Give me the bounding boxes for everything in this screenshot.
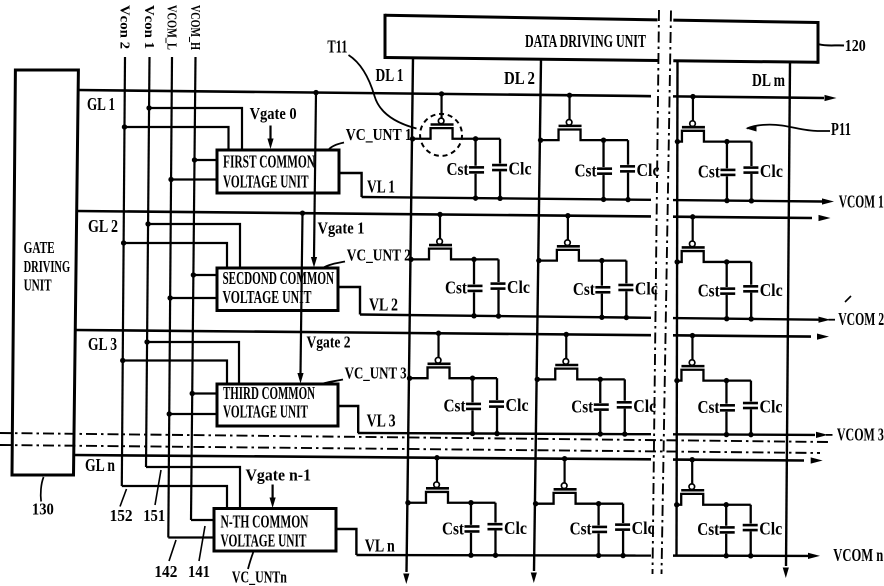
svg-text:GL 1: GL 1 [87, 94, 115, 114]
svg-text:VCOM_H: VCOM_H [187, 5, 202, 50]
svg-text:Cst: Cst [570, 519, 592, 539]
svg-text:142: 142 [154, 562, 177, 581]
svg-text:VOLTAGE UNIT: VOLTAGE UNIT [223, 402, 308, 422]
svg-text:VL 2: VL 2 [369, 295, 398, 315]
svg-text:Cst: Cst [697, 519, 719, 539]
svg-text:Clc: Clc [759, 397, 782, 417]
svg-text:Clc: Clc [637, 160, 660, 180]
svg-text:VL n: VL n [365, 536, 395, 556]
svg-text:Vgate 0: Vgate 0 [250, 104, 297, 123]
svg-text:Vgate 1: Vgate 1 [318, 219, 365, 238]
svg-text:VOLTAGE UNIT: VOLTAGE UNIT [221, 531, 307, 551]
svg-text:DL 2: DL 2 [504, 68, 535, 88]
svg-text:Cst: Cst [444, 396, 466, 416]
svg-text:Clc: Clc [504, 518, 527, 538]
svg-text:THIRD COMMON: THIRD COMMON [223, 383, 315, 403]
svg-text:VL 3: VL 3 [367, 411, 396, 431]
svg-text:Clc: Clc [635, 279, 658, 299]
svg-text:DRIVING: DRIVING [24, 257, 71, 276]
svg-text:VCOM_L: VCOM_L [163, 5, 178, 50]
svg-text:Cst: Cst [573, 279, 595, 299]
svg-text:Cst: Cst [447, 159, 469, 179]
svg-text:Cst: Cst [697, 397, 719, 417]
svg-text:Vgate n-1: Vgate n-1 [246, 466, 312, 485]
svg-text:141: 141 [188, 562, 210, 581]
svg-text:130: 130 [32, 500, 54, 519]
svg-text:Cst: Cst [442, 518, 464, 538]
svg-text:VCOM n: VCOM n [833, 545, 883, 565]
svg-text:DL 1: DL 1 [376, 65, 404, 85]
svg-text:Clc: Clc [633, 396, 656, 416]
svg-text:Clc: Clc [759, 519, 782, 539]
svg-text:VC_UNTn: VC_UNTn [232, 568, 287, 586]
svg-text:GATE: GATE [24, 238, 55, 257]
svg-text:VCOM 1: VCOM 1 [839, 192, 884, 212]
svg-text:P11: P11 [831, 119, 851, 139]
svg-text:GL 3: GL 3 [88, 334, 117, 354]
svg-text:UNIT: UNIT [24, 275, 52, 294]
svg-text:Clc: Clc [760, 161, 783, 181]
svg-text:Cst: Cst [575, 160, 597, 180]
svg-text:VOLTAGE UNIT: VOLTAGE UNIT [223, 287, 312, 307]
svg-text:DL m: DL m [752, 70, 785, 90]
svg-text:151: 151 [143, 506, 165, 525]
svg-text:VC_UNT 3: VC_UNT 3 [345, 364, 407, 383]
svg-text:Cst: Cst [698, 162, 720, 182]
svg-text:Vgate 2: Vgate 2 [307, 333, 351, 352]
svg-text:T11: T11 [327, 37, 347, 57]
svg-text:FIRST COMMON: FIRST COMMON [223, 152, 315, 172]
svg-text:Clc: Clc [632, 518, 655, 538]
svg-text:VL 1: VL 1 [367, 177, 395, 197]
svg-text:GL n: GL n [85, 455, 115, 475]
svg-text:Clc: Clc [506, 395, 529, 415]
svg-text:VCOM 2: VCOM 2 [838, 309, 884, 329]
svg-text:Cst: Cst [571, 396, 593, 416]
svg-text:VC_UNT 1: VC_UNT 1 [346, 125, 412, 144]
svg-text:VC_UNT 2: VC_UNT 2 [347, 246, 411, 265]
svg-text:Vcon 2: Vcon 2 [116, 5, 131, 49]
svg-text:Cst: Cst [698, 280, 720, 300]
svg-text:DATA DRIVING UNIT: DATA DRIVING UNIT [525, 31, 646, 51]
svg-text:Vcon 1: Vcon 1 [141, 5, 156, 49]
svg-text:Cst: Cst [445, 278, 467, 298]
svg-text:SECDOND COMMON: SECDOND COMMON [223, 268, 335, 288]
svg-text:VCOM 3: VCOM 3 [837, 425, 884, 445]
svg-text:Clc: Clc [509, 159, 532, 179]
svg-text:152: 152 [110, 506, 133, 525]
svg-text:120: 120 [845, 36, 866, 55]
svg-text:GL 2: GL 2 [88, 216, 118, 236]
svg-text:VOLTAGE UNIT: VOLTAGE UNIT [223, 172, 309, 192]
svg-text:Clc: Clc [760, 280, 783, 300]
svg-text:Clc: Clc [507, 277, 530, 297]
svg-text:N-TH COMMON: N-TH COMMON [221, 512, 309, 532]
